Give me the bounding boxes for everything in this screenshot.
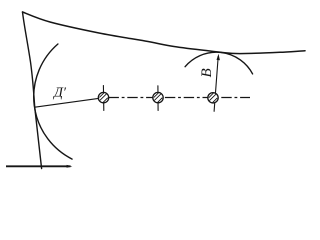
ground base line <box>6 165 71 167</box>
arrowhead of radius B <box>217 54 220 60</box>
cam top profile curve <box>23 12 306 54</box>
svg-text:В: В <box>199 68 215 77</box>
center tick node O2 <box>157 86 159 111</box>
cam left profile line <box>23 12 42 169</box>
hinge circle node O2 <box>153 92 163 102</box>
radius line D-prime from profile point to node O1 <box>35 98 99 107</box>
ground line end arrow <box>67 165 73 168</box>
right roller arc centered near node O3 <box>185 52 253 74</box>
hinge circle node O3 <box>208 93 218 103</box>
radius line B from node O3 up to tangent point (with tick below) <box>214 57 218 112</box>
dash-dot center line through nodes <box>109 97 251 99</box>
hinge circle node O1 <box>98 92 108 102</box>
left roller arc R centered at node O1 <box>34 44 72 159</box>
svg-text:Д′: Д′ <box>52 86 67 101</box>
center tick node O1 <box>102 86 104 111</box>
